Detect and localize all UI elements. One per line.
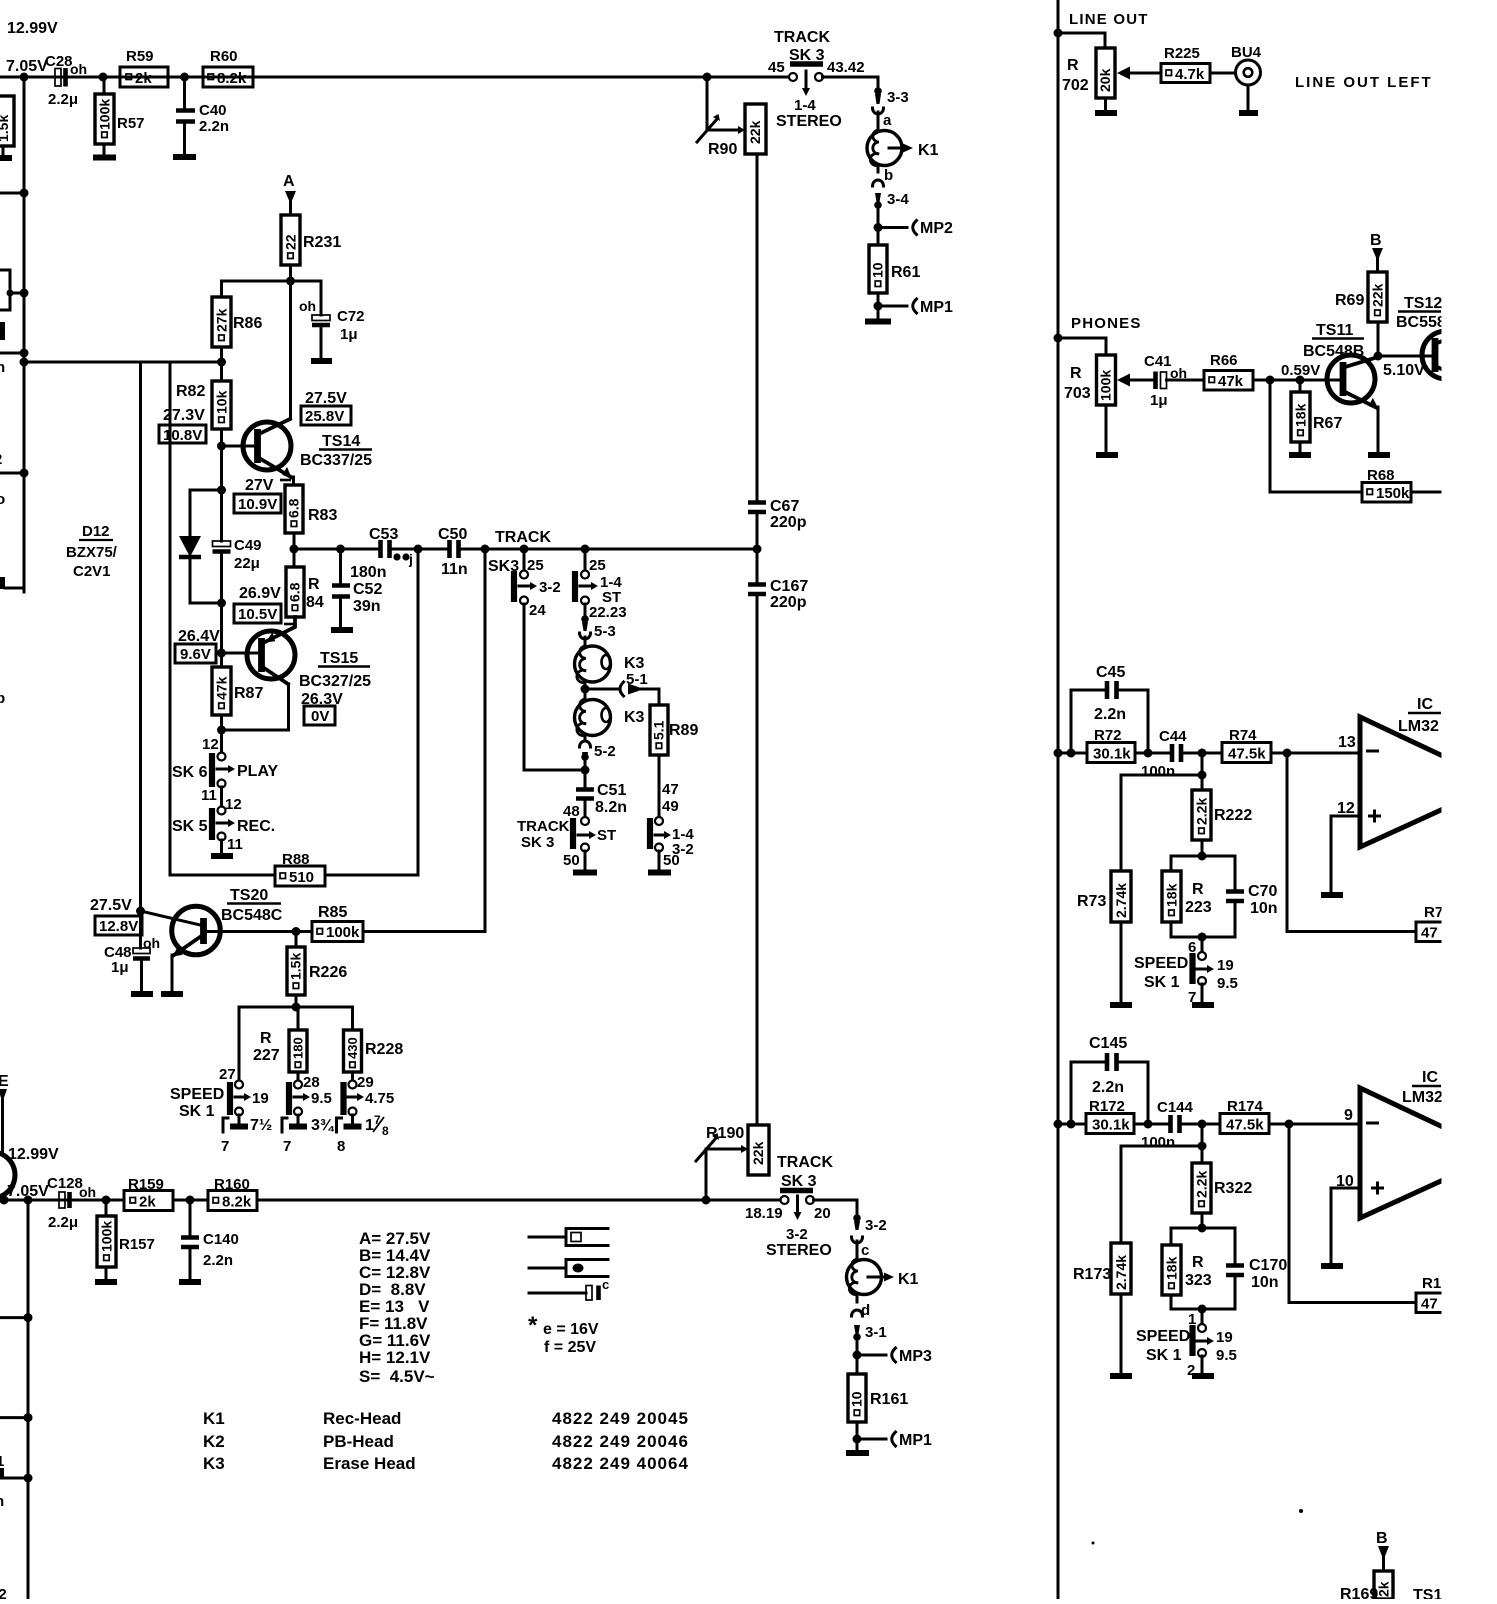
svg-text:2.2n: 2.2n <box>203 1252 233 1269</box>
svg-text:MP2: MP2 <box>920 220 953 237</box>
resistor R175 (cut) <box>1416 1275 1450 1313</box>
switch TRACK SK3 (top) <box>768 59 865 130</box>
svg-text:510: 510 <box>289 869 314 886</box>
svg-text:10: 10 <box>870 262 886 278</box>
svg-text:10k: 10k <box>214 390 230 414</box>
svg-text:24: 24 <box>529 602 546 619</box>
junction dot x=757 <box>753 545 762 554</box>
socket arc 5-3 <box>580 633 591 639</box>
svg-text:5-3: 5-3 <box>594 623 616 640</box>
capacitor C70 (parallel right) <box>1202 856 1278 937</box>
resistor R227 <box>253 1007 307 1072</box>
wire stub y=1417.6 <box>0 1416 28 1419</box>
wire R88 left <box>170 874 275 877</box>
ground under 1-4 switch <box>648 851 671 873</box>
svg-text:C52: C52 <box>353 581 382 598</box>
boxed voltage 10.5V <box>234 604 281 623</box>
SK1-c common bar <box>337 1113 390 1155</box>
svg-text:20: 20 <box>814 1205 831 1222</box>
svg-text:R: R <box>1070 365 1082 382</box>
svg-text:8.2k: 8.2k <box>222 1194 252 1211</box>
svg-text:R1: R1 <box>1422 1275 1441 1292</box>
ground under C72 <box>311 327 332 361</box>
svg-text:5.1: 5.1 <box>651 720 667 740</box>
svg-text:2.2n: 2.2n <box>1094 706 1126 723</box>
head K1 (top) <box>867 112 939 166</box>
ground under R173 <box>1110 1294 1132 1376</box>
wire to TS12 <box>1378 355 1432 358</box>
wire pin10 to ground <box>1321 1188 1360 1266</box>
svg-text:19: 19 <box>1216 1329 1233 1346</box>
ground under SK1 ch1 <box>1192 984 1214 1005</box>
svg-text:S= 4.5V~: S= 4.5V~ <box>359 1367 435 1386</box>
ground under R67 <box>1289 442 1311 455</box>
legend symbol plug dot <box>529 1260 608 1277</box>
connector BU4 <box>1210 44 1262 85</box>
ground under C40 <box>173 124 196 157</box>
svg-text:1.5k: 1.5k <box>0 115 11 142</box>
svg-text:50: 50 <box>563 852 580 869</box>
capacitor C167 <box>748 578 808 611</box>
svg-text:10n: 10n <box>1250 900 1278 917</box>
ground under R703 <box>1096 405 1118 455</box>
svg-text:28: 28 <box>303 1074 320 1091</box>
wire R88 right <box>325 874 418 877</box>
capacitor C51 <box>576 782 627 816</box>
svg-text:47.5k: 47.5k <box>1228 746 1266 763</box>
wire bypass from 24 down and right <box>524 604 585 770</box>
wire TS15 collector down <box>287 684 290 730</box>
switch SK3 3-2 (mid left) <box>514 549 561 619</box>
resistor R59 <box>120 48 168 87</box>
svg-text:R228: R228 <box>365 1041 403 1058</box>
resistor R174 <box>1220 1098 1269 1134</box>
svg-text:R172: R172 <box>1089 1098 1125 1115</box>
wire stub y=473 <box>0 472 24 475</box>
svg-text:27.5V: 27.5V <box>90 897 132 914</box>
svg-text:REC.: REC. <box>237 818 275 835</box>
svg-text:1.5k: 1.5k <box>288 953 304 980</box>
junction dot base TS15 <box>217 649 226 658</box>
head table K1 <box>203 1409 689 1428</box>
svg-text:22μ: 22μ <box>234 555 260 572</box>
junction dot x=1270 <box>1266 376 1275 385</box>
svg-text:13: 13 <box>1338 734 1356 751</box>
svg-text:5-1: 5-1 <box>626 671 648 688</box>
svg-text:9.6V: 9.6V <box>180 646 211 663</box>
capacitor C40 <box>176 77 229 135</box>
svg-text:R157: R157 <box>119 1236 155 1253</box>
svg-text:3-2: 3-2 <box>786 1226 808 1243</box>
svg-text:100n: 100n <box>1141 763 1175 780</box>
svg-text:R: R <box>308 576 320 593</box>
transistor fragment left edge <box>0 1152 15 1200</box>
wire R222 branch <box>1201 753 1204 790</box>
arrow wire from R225 to R702 <box>1117 67 1161 80</box>
svg-text:PB-Head: PB-Head <box>323 1432 394 1451</box>
wire bottom rail y=1200 <box>0 1199 781 1202</box>
wire R89 down <box>658 755 661 817</box>
svg-text:220p: 220p <box>770 594 807 611</box>
wire R82 bottom to base junction <box>220 429 223 490</box>
resistor R86 <box>212 297 262 347</box>
junction dot feedback ch2 <box>1285 1120 1294 1129</box>
svg-text:3-1: 3-1 <box>865 1324 887 1341</box>
ground under SK1 ch2 <box>1192 1356 1214 1376</box>
ground under left fragment <box>0 146 12 158</box>
resistor fragment left edge top (1.5k) <box>0 96 14 146</box>
svg-text:R7: R7 <box>1424 904 1443 921</box>
svg-text:SK 1: SK 1 <box>1144 974 1180 991</box>
svg-text:47k: 47k <box>1218 373 1244 390</box>
svg-text:R60: R60 <box>210 48 238 65</box>
svg-text:R72: R72 <box>1094 727 1122 744</box>
svg-text:47k: 47k <box>214 676 230 700</box>
wire C49 leads <box>220 490 223 603</box>
junction dot C144/R174 <box>1198 1120 1207 1129</box>
junction dots <box>1054 749 1063 758</box>
svg-text:C28: C28 <box>45 53 73 70</box>
svg-text:R88: R88 <box>282 851 310 868</box>
junction dot x=485 <box>481 545 490 554</box>
svg-text:SPEED: SPEED <box>170 1086 224 1103</box>
node E arrow fragment <box>0 1073 9 1152</box>
svg-text:R: R <box>1067 57 1079 74</box>
svg-text:5.10V: 5.10V <box>1383 362 1425 379</box>
svg-text:11: 11 <box>227 836 243 853</box>
svg-text:C170: C170 <box>1249 1257 1287 1274</box>
svg-text:2.74k: 2.74k <box>1113 1255 1129 1290</box>
svg-text:SPEED: SPEED <box>1136 1328 1190 1345</box>
junction dot <box>217 486 226 495</box>
junction dot <box>24 1474 33 1483</box>
svg-text:K3: K3 <box>624 655 645 672</box>
svg-text:*: * <box>528 1312 538 1339</box>
svg-text:3¾: 3¾ <box>311 1117 335 1134</box>
junction dot MP1 <box>853 1435 862 1444</box>
svg-text:R83: R83 <box>308 507 337 524</box>
potentiometer R190 <box>696 1125 769 1200</box>
wire TS11 emitter to ground <box>1368 407 1390 455</box>
svg-text:K1: K1 <box>918 142 939 159</box>
svg-text:2.2k: 2.2k <box>1194 1171 1210 1198</box>
svg-text:B: B <box>1370 232 1382 249</box>
ground under ST switch <box>573 851 597 873</box>
svg-text:4.75: 4.75 <box>365 1090 394 1107</box>
resistor R222 <box>1192 790 1252 840</box>
svg-text:a: a <box>883 112 892 129</box>
svg-text:150k: 150k <box>1376 485 1410 502</box>
wire x=418 down to R88 <box>417 549 420 875</box>
svg-text:47: 47 <box>1421 1296 1438 1313</box>
junction dot <box>20 469 29 478</box>
svg-text:LM32: LM32 <box>1402 1089 1443 1106</box>
wire C167 down to R190 <box>756 596 759 1125</box>
wire top rail y=77 <box>0 76 789 79</box>
junction dot MP1 top <box>874 302 883 311</box>
wire TS14 emitter to R83 <box>292 477 295 485</box>
junction dot x=184.5 <box>180 73 189 82</box>
svg-text:49: 49 <box>662 798 679 815</box>
svg-text:C50: C50 <box>438 526 467 543</box>
svg-text:0V: 0V <box>311 708 329 725</box>
svg-text:430: 430 <box>345 1037 360 1059</box>
svg-text:E: E <box>0 1073 9 1090</box>
ground under SK5 <box>211 840 233 856</box>
wire R227 bottom <box>297 1072 300 1081</box>
svg-text:R67: R67 <box>1313 415 1342 432</box>
svg-text:C67: C67 <box>770 498 799 515</box>
wire R231 bottom to junction <box>289 265 292 281</box>
wire R226 bottom junction <box>295 995 298 1007</box>
capacitor C48 <box>104 911 160 976</box>
junction dot <box>217 599 226 608</box>
svg-text:TS11: TS11 <box>1316 322 1353 339</box>
junction dot MP2 <box>874 223 883 232</box>
svg-text:C2V1: C2V1 <box>73 563 111 580</box>
resistor R73 <box>1077 871 1131 922</box>
svg-text:12.8V: 12.8V <box>99 918 138 935</box>
svg-text:R87: R87 <box>234 685 263 702</box>
node B arrow (top) <box>1370 232 1383 272</box>
switch SK3 1-4/3-2 (bottom right) <box>650 817 694 869</box>
junction dot x=1300 <box>1296 376 1305 385</box>
svg-text:LM32: LM32 <box>1398 718 1439 735</box>
junction dot x=103 <box>99 73 108 82</box>
svg-text:18k: 18k <box>1293 403 1309 427</box>
svg-text:R86: R86 <box>233 315 262 332</box>
svg-text:C41: C41 <box>1144 353 1172 370</box>
junction dot <box>286 277 295 286</box>
junction dot bypass <box>581 766 590 775</box>
boxed voltage 10.9V <box>234 494 281 513</box>
contact pin 3-2 <box>853 1214 886 1234</box>
arrow wire from C41 to R703 <box>1117 374 1152 387</box>
junction dot x=28 <box>24 1196 33 1205</box>
junction dot <box>1054 334 1063 343</box>
switch SK1-c <box>344 1081 395 1116</box>
junction dot <box>1198 1224 1207 1233</box>
svg-text:3-2: 3-2 <box>865 1217 887 1234</box>
capacitor C45 loop <box>1071 664 1148 753</box>
svg-text:12: 12 <box>225 796 242 813</box>
capacitor C52 <box>332 549 382 615</box>
switch TRACK SK3 (bottom) <box>745 1191 832 1260</box>
wire down to TS15 base junction <box>220 603 223 667</box>
wire PHONES to R703 <box>1058 338 1106 355</box>
ground under R73 <box>1110 922 1132 1005</box>
svg-text:11: 11 <box>201 787 217 804</box>
test point MP3 <box>857 1348 932 1365</box>
svg-text:TRACK: TRACK <box>495 529 551 546</box>
alignment dots and j mark <box>393 551 412 567</box>
dash below R84 <box>284 623 294 626</box>
svg-text:27.3V: 27.3V <box>163 407 205 424</box>
resistor R225 <box>1161 45 1210 83</box>
svg-text:10.8V: 10.8V <box>163 427 202 444</box>
svg-text:BC548C: BC548C <box>221 907 283 924</box>
left edge bar fragment 3 <box>0 1468 4 1477</box>
svg-text:5-2: 5-2 <box>594 743 616 760</box>
wire vertical x=140 (to TS20 base) <box>139 362 142 911</box>
svg-text:8: 8 <box>337 1138 345 1155</box>
node A arrow <box>283 173 296 215</box>
svg-text:R74: R74 <box>1229 727 1257 744</box>
svg-text:10n: 10n <box>1251 1274 1279 1291</box>
wire main y=1124 <box>1058 1123 1360 1126</box>
resistor R323 (parallel left) <box>1162 1228 1212 1309</box>
switch TRACK SK3 ST (bottom mid) <box>563 817 616 869</box>
svg-text:1μ: 1μ <box>340 326 358 343</box>
resistor R161 <box>848 1374 908 1422</box>
svg-text:180: 180 <box>291 1037 306 1059</box>
svg-text:100k: 100k <box>99 1221 115 1252</box>
svg-text:29: 29 <box>357 1074 374 1091</box>
boxed voltage 10.8V <box>159 425 206 444</box>
svg-text:SPEED: SPEED <box>1134 955 1188 972</box>
ground under R61 <box>865 319 891 325</box>
test point MP1 (bottom) <box>857 1432 932 1449</box>
wire R68 branch <box>1270 380 1362 492</box>
capacitor C145 loop <box>1071 1035 1148 1124</box>
svg-text:LINE OUT LEFT: LINE OUT LEFT <box>1295 74 1433 91</box>
svg-text:26.9V: 26.9V <box>239 585 281 602</box>
svg-text:R173: R173 <box>1073 1266 1111 1283</box>
junction dot x=524 <box>520 545 529 554</box>
wire R228 bottom <box>351 1072 354 1081</box>
svg-text:6.8: 6.8 <box>286 498 302 518</box>
svg-text:30.1k: 30.1k <box>1093 746 1131 763</box>
contact pin 3-4 <box>874 191 909 245</box>
resistor R87 <box>212 667 263 715</box>
svg-text:R66: R66 <box>1210 352 1238 369</box>
svg-text:22k: 22k <box>747 120 763 144</box>
socket arc b <box>873 165 894 186</box>
svg-text:100k: 100k <box>326 924 360 941</box>
junction dot sub <box>1198 771 1207 780</box>
svg-text:7: 7 <box>283 1138 291 1155</box>
svg-text:C53: C53 <box>369 526 398 543</box>
svg-text:18k: 18k <box>1164 883 1180 907</box>
svg-text:6.8: 6.8 <box>287 582 303 602</box>
svg-text:e = 16V: e = 16V <box>543 1321 599 1338</box>
contact pin 3-1 <box>853 1324 886 1374</box>
svg-text:R222: R222 <box>1214 807 1252 824</box>
label SPEED SK1 <box>170 1086 224 1120</box>
svg-text:R69: R69 <box>1335 292 1364 309</box>
resistor R75 (cut) <box>1416 904 1450 942</box>
svg-text:TS1: TS1 <box>1413 1587 1442 1599</box>
svg-text:8.2k: 8.2k <box>217 70 247 87</box>
svg-text:84: 84 <box>306 594 324 611</box>
svg-text:12: 12 <box>202 736 219 753</box>
wire right rail x=1058 <box>1057 0 1060 1599</box>
voltage legend table <box>359 1229 435 1386</box>
svg-text:45: 45 <box>768 59 785 76</box>
svg-text:TRACK: TRACK <box>777 1154 833 1171</box>
node B arrow (bottom) <box>1376 1530 1389 1571</box>
junction dot x=4 <box>0 1196 9 1205</box>
label SPEED SK1 (ch2) <box>1136 1328 1190 1364</box>
svg-text:4822 249 20046: 4822 249 20046 <box>552 1432 689 1451</box>
junction dot C52 branch <box>336 545 345 554</box>
wire stub y=293 <box>10 292 24 295</box>
svg-text:227: 227 <box>253 1047 280 1064</box>
svg-text:9.5: 9.5 <box>311 1090 332 1107</box>
svg-text:R89: R89 <box>669 722 698 739</box>
svg-text:3-2: 3-2 <box>539 579 561 596</box>
socket arc d <box>852 1294 871 1319</box>
junction dots on y=362 <box>20 358 29 367</box>
svg-text:C144: C144 <box>1157 1099 1194 1116</box>
capacitor C72 <box>299 281 365 343</box>
svg-text:R159: R159 <box>128 1176 164 1193</box>
wire y=730 to TS15 collector <box>222 729 289 732</box>
svg-text:C145: C145 <box>1089 1035 1127 1052</box>
wire LINE OUT to R702 <box>1058 33 1105 48</box>
socket arc c <box>852 1237 870 1259</box>
svg-text:SK 1: SK 1 <box>1146 1347 1182 1364</box>
svg-text:p: p <box>0 690 5 707</box>
switch SK6 PLAY <box>172 753 279 805</box>
svg-text:oh: oh <box>79 1184 96 1200</box>
wire R90 bottom to C67 <box>756 154 759 500</box>
svg-text:2.2μ: 2.2μ <box>48 1214 78 1231</box>
junction dot MP3 <box>853 1351 862 1360</box>
svg-text:39n: 39n <box>353 598 381 615</box>
svg-text:9.5: 9.5 <box>1216 1347 1237 1364</box>
capacitor C44 <box>1141 728 1187 780</box>
svg-text:A: A <box>283 173 295 190</box>
boxed voltage 9.6V <box>175 644 216 663</box>
svg-text:12.99V: 12.99V <box>8 1146 59 1163</box>
svg-text:4822 249 20045: 4822 249 20045 <box>552 1409 689 1428</box>
label SPEED SK1 (ch1) <box>1134 955 1188 991</box>
junction dot C44/R74 <box>1198 749 1207 758</box>
SK1-b common bar <box>282 1115 335 1155</box>
contact pin 5-2 <box>581 752 589 787</box>
svg-text:PHONES: PHONES <box>1071 315 1142 332</box>
stray dot 2 <box>1092 1542 1095 1545</box>
svg-text:7: 7 <box>221 1138 229 1155</box>
junction dot TS20 base <box>136 907 145 916</box>
junction dot x=106 <box>102 1196 111 1205</box>
svg-text:3-4: 3-4 <box>887 191 909 208</box>
svg-text:K3: K3 <box>624 709 645 726</box>
junction dot below parallel <box>1198 933 1207 942</box>
svg-text:TS12: TS12 <box>1404 295 1442 312</box>
resistor R68 <box>1362 467 1411 502</box>
capacitor C140 <box>181 1200 239 1269</box>
diode D12 <box>66 490 201 603</box>
svg-text:12: 12 <box>1337 800 1355 817</box>
capacitor C170 (parallel right) <box>1202 1228 1287 1309</box>
svg-text:2: 2 <box>0 451 2 468</box>
svg-text:18.19: 18.19 <box>745 1205 783 1222</box>
head K1 (bottom) <box>847 1241 919 1295</box>
svg-text:BC548B: BC548B <box>1303 343 1364 360</box>
svg-text:R225: R225 <box>1164 45 1200 62</box>
legend note e=16V <box>528 1312 599 1339</box>
wire horizontal y=281 <box>222 280 322 283</box>
resistor R67 <box>1291 380 1342 442</box>
wire from contact 43.42 <box>823 77 879 88</box>
junction dot <box>1198 852 1207 861</box>
wire stub y=193 <box>0 192 24 195</box>
svg-text:0.59V: 0.59V <box>1281 362 1320 379</box>
svg-text:SK 3: SK 3 <box>781 1173 817 1190</box>
svg-text:C70: C70 <box>1248 883 1277 900</box>
